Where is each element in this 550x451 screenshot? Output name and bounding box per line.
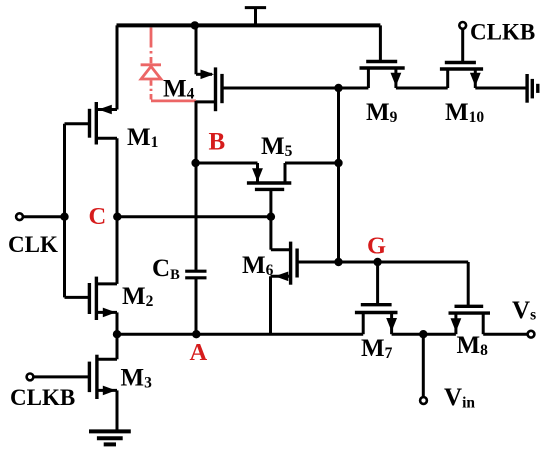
svg-text:B: B bbox=[209, 129, 226, 156]
junction rail and M4 bbox=[191, 21, 199, 29]
junction node A capacitor bbox=[192, 330, 200, 338]
wire M4 source / node B vertical bbox=[195, 101, 198, 270]
wire M5 drain to bus bbox=[285, 162, 339, 165]
transistor M7 bbox=[355, 305, 398, 335]
wire M9 gate from rail bbox=[379, 25, 382, 61]
wire M7 source to Vin junction bbox=[392, 333, 424, 336]
svg-text:G: G bbox=[367, 233, 386, 260]
junction node G bbox=[373, 258, 381, 266]
junction CLK bbox=[60, 213, 68, 221]
ground under M3 bbox=[89, 431, 131, 444]
transistor M2 bbox=[65, 277, 118, 320]
transistor M8 bbox=[449, 306, 491, 334]
terminal Vin bbox=[420, 397, 427, 404]
wire M10 to ground bbox=[475, 87, 525, 90]
wire M6 drain to node C bbox=[271, 248, 291, 251]
wire Vin down bbox=[422, 334, 425, 397]
wire M6 source down to node A bbox=[269, 276, 272, 334]
transistor M4 bbox=[196, 67, 222, 111]
terminal CLKB bottom bbox=[27, 374, 34, 381]
transistor M1 bbox=[65, 102, 118, 145]
terminal Vs bbox=[528, 331, 535, 338]
svg-text:CLKB: CLKB bbox=[10, 385, 75, 410]
wire M1 drain to rail bbox=[116, 25, 119, 109]
wire M5 gate down bbox=[269, 189, 272, 249]
wire M10 gate bbox=[461, 29, 464, 63]
junction bus M6 gate bbox=[334, 258, 342, 266]
wire M8 drain to Vs bbox=[483, 333, 527, 336]
ground right rotated bbox=[527, 74, 538, 103]
wire M1 source to M2 drain bbox=[116, 138, 119, 284]
junction Vin node bbox=[419, 330, 427, 338]
wire top VDD rail bbox=[117, 23, 381, 27]
terminal CLK bbox=[16, 213, 23, 220]
transistor M3 bbox=[34, 355, 117, 399]
junction bus M5 bbox=[334, 159, 342, 167]
wire gate bus M4-M9 bbox=[224, 87, 369, 90]
wire M8 gate from node G wire bbox=[467, 262, 470, 306]
wire M8 source to Vin junction bbox=[423, 333, 456, 336]
junction node C bbox=[113, 213, 121, 221]
junction M5 gate node C bbox=[267, 213, 275, 221]
wire M2 source down bbox=[116, 312, 119, 334]
capacitor CB bbox=[185, 271, 206, 278]
junction node B bbox=[191, 159, 199, 167]
terminal CLKB top bbox=[459, 22, 466, 29]
transistor M5 bbox=[247, 163, 291, 189]
wire G to M7 gate bbox=[376, 262, 379, 305]
wire node A horizontal bbox=[117, 333, 363, 336]
junction bus top bbox=[334, 84, 342, 92]
wire CLK vertical bus bbox=[63, 124, 66, 298]
svg-text:C: C bbox=[89, 203, 107, 230]
wire node C horizontal bbox=[117, 215, 271, 218]
diode (red, dashed leads) bbox=[141, 28, 196, 101]
power VDD symbol bbox=[245, 8, 266, 26]
wire M3 source down bbox=[116, 390, 119, 431]
wire M9 to M10 bbox=[396, 87, 448, 90]
svg-text:A: A bbox=[190, 339, 208, 366]
transistor M10 bbox=[440, 63, 483, 89]
transistor M6 bbox=[271, 242, 298, 285]
wire vertical bus bbox=[337, 88, 340, 262]
wire M3 drain bbox=[97, 334, 117, 359]
wire CLK stub bbox=[23, 215, 65, 218]
junction node A left bbox=[113, 330, 121, 338]
wire capacitor to node A bbox=[195, 279, 198, 334]
svg-text:CLKB: CLKB bbox=[470, 20, 535, 45]
svg-text:CLK: CLK bbox=[8, 232, 58, 257]
wire node B to M5 bbox=[196, 162, 258, 165]
transistor M9 bbox=[360, 62, 405, 89]
wire M4 drain from rail bbox=[195, 25, 198, 74]
wire M6 gate to node G to M8 bbox=[297, 261, 468, 264]
